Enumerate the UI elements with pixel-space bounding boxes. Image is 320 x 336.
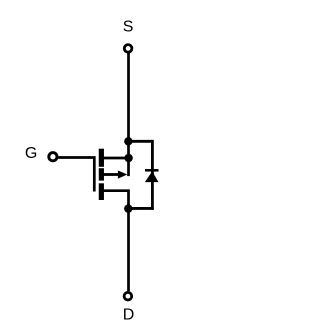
diode D1 anode triangle xyxy=(145,171,159,182)
wire: body diode branch vertical xyxy=(151,140,154,210)
wire: source bar to source node xyxy=(103,157,129,160)
transistor Q1 body channel bar xyxy=(99,168,104,180)
transistor Q1 source channel bar xyxy=(99,149,104,167)
wire: drain bar to drain rail down to D terminal xyxy=(103,191,129,292)
node: junction of source rail and body-diode branch xyxy=(124,137,132,145)
wire: S terminal down to source rail xyxy=(127,53,130,176)
diode D1 cathode bar xyxy=(145,169,159,172)
wire: top branch from source rail to body diode cathode xyxy=(128,140,152,143)
terminal S xyxy=(124,45,132,53)
transistor Q1 body arrow (P-channel, pointing away from channel) xyxy=(118,171,128,179)
terminal D xyxy=(124,292,132,300)
wire: bottom branch from body diode anode to drain rail xyxy=(128,207,154,210)
node: junction of drain rail and body-diode branch xyxy=(124,204,132,212)
svg-text:S: S xyxy=(123,19,134,36)
terminal G xyxy=(49,153,57,161)
wire: gate lead from G terminal, turning down into gate electrode xyxy=(58,158,94,192)
node: junction of source rail and source bar wire xyxy=(124,154,132,162)
transistor Q1 drain channel bar xyxy=(99,183,104,200)
wire: body connection line xyxy=(103,173,119,176)
svg-text:G: G xyxy=(25,145,37,162)
svg-text:D: D xyxy=(123,307,135,324)
